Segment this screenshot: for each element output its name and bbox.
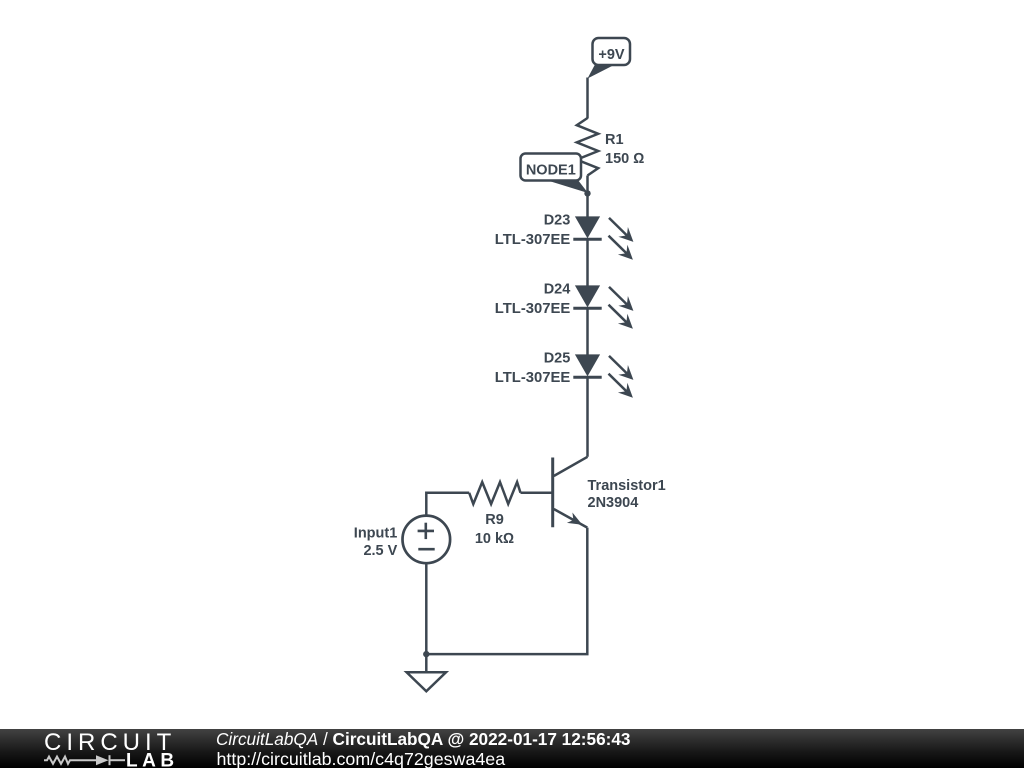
wire from R9 right terminal to Transistor1 base (521, 492, 552, 495)
Transistor1 name and value labels (588, 478, 666, 511)
wire from Input1 plus terminal to R9 left terminal (426, 493, 469, 516)
D25 name and value labels (495, 351, 571, 386)
CircuitLab logo (0, 729, 190, 768)
svg-text:LTL-307EE: LTL-307EE (495, 370, 571, 386)
wire from Transistor1 emitter down to ground rail (426, 528, 587, 655)
transistor Transistor1 (2N3904 NPN) (553, 457, 588, 528)
wire from D25 cathode to Transistor1 collector (586, 377, 589, 457)
svg-text:D25: D25 (544, 351, 571, 367)
resistor R9 (469, 482, 520, 504)
svg-text:R9: R9 (485, 512, 504, 528)
voltage source Input1 (403, 516, 451, 564)
svg-text:D24: D24 (544, 282, 571, 298)
Input1 name and value labels (354, 525, 398, 559)
LED D25 (573, 354, 633, 397)
footer url text (217, 749, 506, 768)
svg-text:LTL-307EE: LTL-307EE (495, 232, 571, 248)
D24 name and value labels (495, 282, 571, 317)
logo resistor-diode art (44, 755, 125, 765)
ground junction dot (423, 651, 429, 657)
LED D24 (573, 285, 633, 328)
power flag +9V (588, 38, 631, 79)
resistor R1 (577, 118, 598, 176)
svg-text:+9V: +9V (598, 47, 625, 63)
svg-text:D23: D23 (544, 213, 571, 229)
svg-text:LAB: LAB (126, 750, 179, 768)
wire from Input1 minus terminal to ground junction (425, 563, 428, 654)
svg-text:2N3904: 2N3904 (588, 495, 639, 511)
svg-text:2.5 V: 2.5 V (363, 543, 397, 559)
D23 name and value labels (495, 213, 571, 248)
LED D23 (573, 216, 633, 259)
wire from R1 bottom to LED D23 anode (586, 176, 589, 218)
footer bar (0, 729, 1024, 768)
wire from D24 cathode to LED D25 anode (586, 308, 589, 355)
R1 name and value labels (605, 132, 644, 167)
svg-text:LTL-307EE: LTL-307EE (495, 301, 571, 317)
footer credit text (216, 729, 630, 750)
node NODE1 junction dot (584, 190, 590, 196)
wire from +9V flag to resistor R1 top (586, 78, 589, 119)
net flag NODE1 (521, 154, 589, 194)
ground (407, 654, 446, 691)
svg-text:10 kΩ: 10 kΩ (475, 531, 514, 547)
svg-text:150 Ω: 150 Ω (605, 151, 644, 167)
svg-text:Input1: Input1 (354, 525, 398, 541)
svg-text:Transistor1: Transistor1 (588, 478, 666, 494)
svg-text:R1: R1 (605, 132, 624, 148)
svg-text:NODE1: NODE1 (526, 162, 576, 178)
R9 name and value labels (475, 512, 514, 547)
wire from D23 cathode to LED D24 anode (586, 239, 589, 285)
